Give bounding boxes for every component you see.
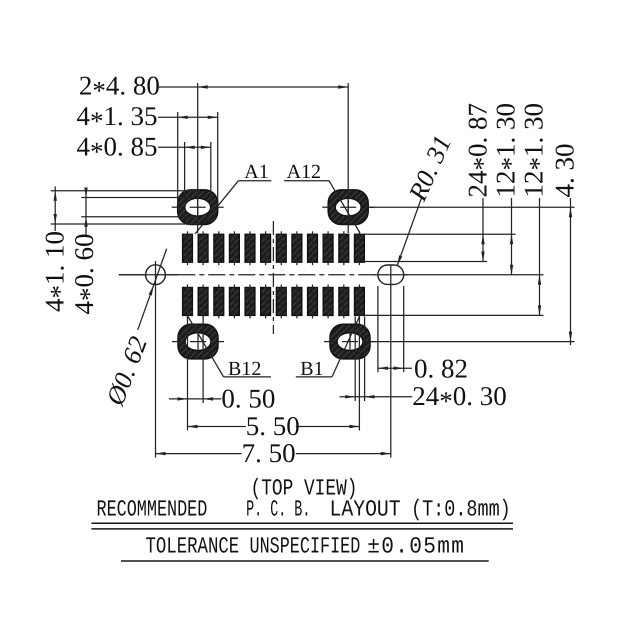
- label A1: [195, 161, 271, 234]
- dimension 4*1.35: [77, 101, 218, 205]
- vertical centerline: [272, 221, 274, 334]
- leader Ø0.62: [100, 249, 167, 410]
- plated hole A12: [322, 190, 374, 225]
- svg-text:24*0. 30: 24*0. 30: [412, 381, 507, 416]
- dimension 0.82 (slot width): [378, 286, 468, 383]
- dimension 12*1.30 (row B): [365, 103, 554, 315]
- dimension 4*0.85: [77, 131, 211, 203]
- svg-text:0. 82: 0. 82: [414, 353, 468, 383]
- svg-text:TOLERANCE: TOLERANCE: [146, 534, 240, 560]
- tolerance rule: [121, 560, 489, 562]
- svg-text:A1: A1: [244, 161, 268, 183]
- dimension 4.30: [370, 144, 580, 346]
- svg-text:0. 50: 0. 50: [221, 384, 275, 414]
- title RECOMMENDED P.C.B. LAYOUT (T:0.8mm): [97, 497, 511, 523]
- plated hole B1: [324, 324, 376, 359]
- title double rule: [91, 523, 513, 529]
- svg-text:12*1. 30: 12*1. 30: [519, 103, 554, 198]
- leader R0.31: [397, 131, 457, 265]
- dimension 0.50 (pad pitch): [169, 317, 275, 431]
- svg-text:4*0. 60: 4*0. 60: [69, 234, 104, 315]
- pad row B (pads B1-B12): [183, 285, 365, 319]
- dimension 12*1.30 (row A): [491, 103, 526, 275]
- svg-text:P. C. B.: P. C. B.: [246, 497, 310, 523]
- label A12: [284, 161, 360, 233]
- dimension 2*4.80: [79, 71, 348, 234]
- pad row A (pads A1-A12): [183, 231, 365, 265]
- locating hole Ø0.62: [119, 261, 179, 458]
- svg-text:LAYOUT: LAYOUT: [330, 497, 401, 523]
- dimension 7.50: [156, 438, 391, 468]
- dimension 24*0.87: [365, 103, 516, 262]
- label B12: [188, 317, 271, 381]
- dimension 5.50: [188, 317, 360, 441]
- svg-text:5. 50: 5. 50: [246, 411, 300, 441]
- svg-text:4. 30: 4. 30: [550, 144, 580, 198]
- svg-text:7. 50: 7. 50: [242, 438, 296, 468]
- horizontal centerline: [119, 274, 544, 276]
- locating slot R0.31: [374, 265, 408, 458]
- tolerance note: [146, 534, 466, 560]
- svg-text:(T:0.8mm): (T:0.8mm): [411, 497, 511, 523]
- plated hole A1: [172, 190, 224, 225]
- dimension 4*1.10: [39, 187, 200, 313]
- dimension 24*0.30 (pad width): [340, 317, 507, 417]
- svg-text:4*0. 85: 4*0. 85: [77, 131, 158, 166]
- svg-text:±0.05mm: ±0.05mm: [367, 534, 465, 560]
- svg-text:UNSPECIFIED: UNSPECIFIED: [250, 534, 361, 560]
- svg-text:RECOMMENDED: RECOMMENDED: [97, 497, 208, 523]
- plated hole B12: [172, 324, 224, 359]
- svg-text:A12: A12: [287, 161, 321, 183]
- label B1: [296, 317, 360, 381]
- dimension 4*0.60: [69, 188, 195, 315]
